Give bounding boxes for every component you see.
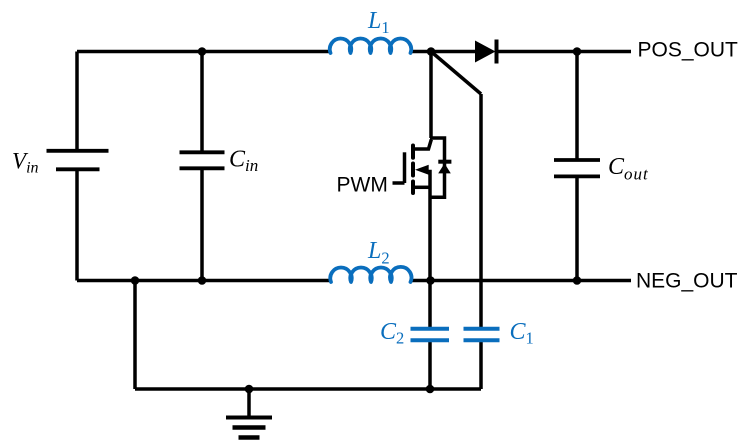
svg-text:NEG_OUT: NEG_OUT (636, 269, 738, 292)
svg-text:PWM: PWM (337, 173, 388, 196)
node dot NEG Cin (198, 276, 207, 285)
wire MOSFET source down through NEG rail to C2 (428, 170, 432, 327)
wire Cin branch upper (200, 52, 204, 152)
capacitor Cout (554, 160, 600, 176)
wire Cout branch upper (575, 52, 579, 160)
inductor L2 (330, 267, 411, 282)
wire top rail left (77, 50, 331, 54)
svg-text:Cout: Cout (608, 154, 649, 183)
wire top rail mid (L1 to diode) (411, 50, 476, 54)
Q1 body diode bar (438, 160, 451, 164)
diode D1 (475, 40, 497, 64)
wire diagonal drain node to C1 branch (431, 52, 481, 95)
wire NEG rail right (411, 279, 632, 283)
wire C2 branch lower (428, 342, 432, 389)
wire Cout branch lower (575, 178, 579, 281)
Q1 source lead (415, 186, 430, 190)
node dot POS Cout (573, 47, 582, 56)
wire NEG rail left (77, 279, 331, 283)
Q1 drain jog and body-diode branch (430, 138, 445, 197)
svg-text:POS_OUT: POS_OUT (638, 39, 739, 62)
node dot NEG Cout (573, 276, 582, 285)
node dot NEG left drop (131, 276, 140, 285)
Q1 gate line (403, 152, 407, 183)
wire C1 branch lower (479, 342, 483, 389)
wire C1 branch upper (479, 94, 483, 327)
svg-text:L1: L1 (367, 8, 390, 37)
svg-text:Cin: Cin (229, 147, 258, 176)
ground (226, 389, 272, 438)
Q1 gate lead (393, 181, 405, 185)
Q1 body diode triangle (438, 163, 451, 173)
svg-text:Vin: Vin (12, 148, 39, 176)
node dot NEG source (426, 276, 435, 285)
svg-text:C1: C1 (510, 319, 534, 348)
node dot drain (427, 47, 436, 56)
capacitor/battery Vin (47, 151, 109, 170)
wire Cin branch lower (200, 170, 204, 281)
capacitor C2 plates (411, 329, 450, 341)
wire drain node down to MOSFET (429, 52, 433, 139)
wire bottom rail (135, 387, 481, 391)
wire Vin branch upper (75, 52, 79, 151)
svg-text:L2: L2 (367, 238, 390, 267)
capacitor Cin (180, 152, 225, 168)
node dot bottom C2 (426, 385, 435, 394)
transistor Q1 (N-MOSFET with body diode) (393, 138, 452, 197)
Q1 channel bars (411, 146, 415, 194)
Q1 body arrow (415, 165, 429, 175)
wire Vin branch lower (75, 170, 79, 281)
Q1 drain lead (413, 140, 431, 150)
node dot top Cin (198, 47, 207, 56)
wire top rail right (diode to POS_OUT) (497, 50, 632, 54)
inductor L1 (330, 38, 411, 53)
capacitor C1 plates (464, 329, 500, 341)
node dot bottom ground (245, 385, 254, 394)
svg-text:C2: C2 (380, 319, 404, 348)
wire left drop to bottom rail (133, 281, 137, 390)
